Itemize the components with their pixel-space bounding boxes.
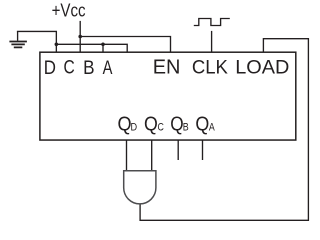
svg-text:Q: Q: [144, 113, 158, 136]
svg-text:Q: Q: [118, 112, 132, 135]
svg-text:D: D: [44, 56, 56, 79]
svg-text:B: B: [183, 122, 189, 134]
svg-text:Q: Q: [170, 113, 183, 136]
svg-text:C: C: [64, 56, 76, 78]
svg-text:EN: EN: [153, 57, 181, 79]
svg-text:CLK: CLK: [192, 57, 228, 79]
svg-text:B: B: [83, 56, 94, 78]
svg-text:Q: Q: [195, 112, 209, 136]
svg-text:D: D: [131, 122, 138, 134]
svg-text:C: C: [157, 122, 163, 134]
svg-text:A: A: [103, 56, 113, 79]
svg-text:A: A: [209, 122, 215, 134]
svg-text:LOAD: LOAD: [235, 56, 289, 78]
svg-text:+Vcc: +Vcc: [52, 0, 86, 21]
